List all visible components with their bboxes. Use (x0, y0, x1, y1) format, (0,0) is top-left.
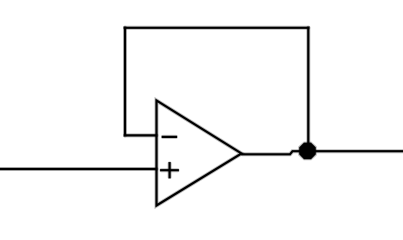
wire feedback top horizontal (125, 26, 308, 30)
wire feedback right vertical (306, 28, 310, 152)
wire feedback left vertical (123, 28, 127, 136)
wire to inverting input (125, 133, 157, 137)
label - inverting pin (163, 135, 176, 139)
label + non-inverting pin (161, 163, 178, 177)
wire non-inverting input (0, 167, 157, 171)
wire output from op-amp apex (243, 151, 403, 154)
node output junction dot (298, 142, 317, 161)
op-amp triangle (157, 101, 242, 206)
